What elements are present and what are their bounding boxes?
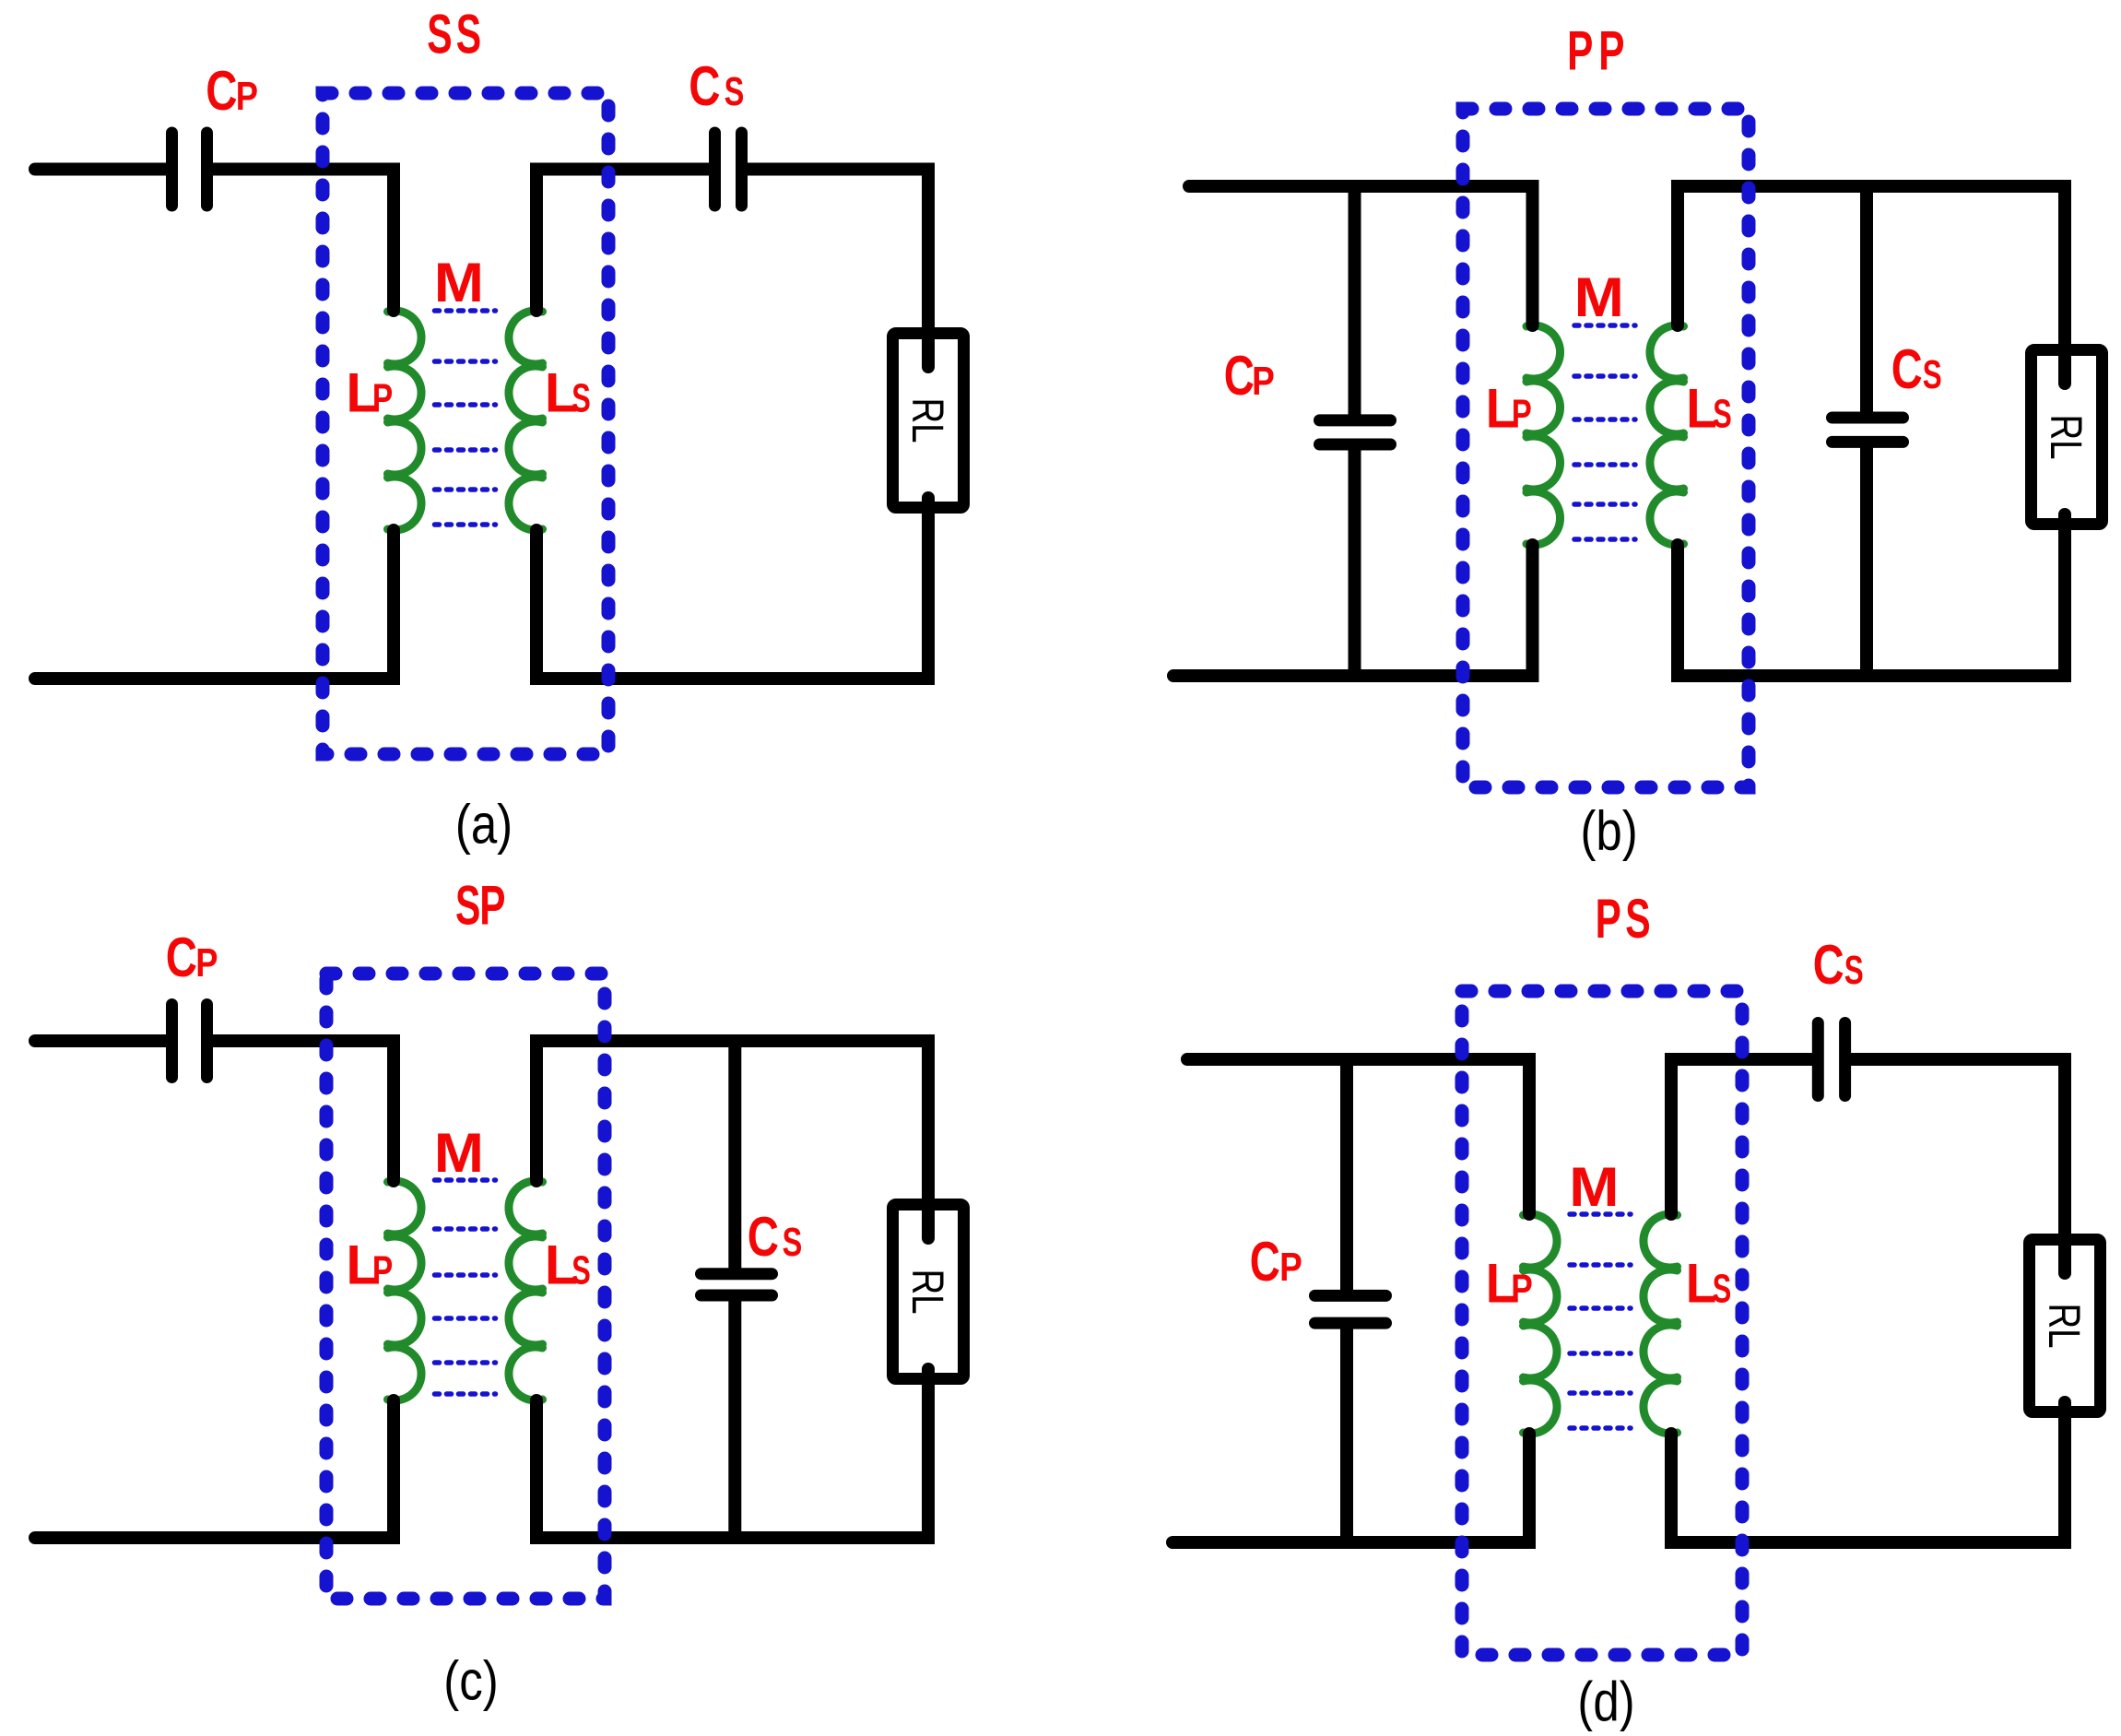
svg-text:S: S — [427, 3, 452, 65]
svg-text:P: P — [1511, 1267, 1533, 1312]
mutual inductance M (a) coupling dashes — [435, 308, 496, 313]
inductor LS (c) secondary coil — [509, 1181, 543, 1400]
transformer boundary box (a) blue dashed — [323, 93, 608, 754]
inductor LS (b) secondary coil — [1650, 325, 1684, 545]
svg-text:RL: RL — [2039, 1303, 2088, 1348]
svg-text:C: C — [1891, 339, 1923, 401]
capacitor CS (b) parallel plates — [1832, 412, 1903, 424]
wire (c) LS top rail to RL — [536, 1041, 928, 1238]
svg-text:M: M — [1574, 266, 1624, 328]
wire (c) CP to LP top — [212, 1041, 394, 1181]
wire (d) LS bottom rail to RL bottom — [1671, 1402, 2065, 1542]
svg-text:S: S — [1923, 352, 1942, 397]
svg-text:RL: RL — [2041, 414, 2090, 459]
wire (b) LP bottom to bottom-left rail — [1173, 545, 1533, 676]
resistor RL (a) — [893, 334, 964, 508]
wire (a) CP to LP top — [212, 170, 394, 312]
wire (b) CS branch lower — [1860, 447, 1873, 676]
capacitor CP (c) series plates — [166, 1005, 178, 1078]
svg-text:S: S — [1713, 392, 1732, 437]
wire (c) CS branch lower — [728, 1301, 741, 1539]
wire (d) LS top to capacitor CS — [1671, 1059, 1812, 1214]
capacitor CS (a) series plates — [709, 133, 721, 206]
svg-text:M: M — [434, 1122, 484, 1184]
svg-text:P: P — [1598, 21, 1624, 83]
svg-text:P: P — [236, 73, 258, 119]
svg-text:S: S — [455, 874, 480, 937]
mutual inductance M (b) coupling dashes — [1574, 323, 1635, 328]
capacitor CS (d) series plates — [1812, 1023, 1824, 1096]
wire (c) input top-left to capacitor CP — [35, 1034, 167, 1047]
svg-text:P: P — [1567, 21, 1593, 83]
svg-text:S: S — [783, 1220, 803, 1265]
wire (d) CS to resistor RL — [1851, 1059, 2065, 1273]
svg-text:(c): (c) — [443, 1650, 498, 1712]
svg-text:P: P — [479, 875, 505, 937]
svg-text:(a): (a) — [455, 794, 513, 856]
capacitor CP (d) parallel plates — [1315, 1290, 1386, 1302]
svg-text:C: C — [689, 56, 720, 118]
capacitor CP (a) series plates — [166, 133, 178, 206]
wire (c) CS branch upper — [728, 1041, 741, 1269]
svg-text:RL: RL — [902, 1269, 951, 1314]
wire (b) LS top rail to RL — [1678, 186, 2065, 384]
capacitor CP (b) parallel plates — [1320, 414, 1391, 426]
svg-text:S: S — [1844, 948, 1864, 993]
transformer boundary box (c) blue dashed — [326, 974, 605, 1599]
svg-text:M: M — [1569, 1156, 1619, 1218]
inductor LP (a) primary coil — [388, 311, 422, 530]
mutual inductance M (d) coupling dashes — [1570, 1211, 1631, 1217]
svg-text:S: S — [725, 69, 745, 114]
inductor LP (c) primary coil — [388, 1181, 422, 1400]
svg-text:P: P — [1596, 889, 1621, 951]
svg-text:P: P — [372, 1248, 393, 1293]
capacitor CS (c) parallel plates — [701, 1268, 772, 1280]
svg-text:C: C — [166, 927, 197, 989]
inductor LS (a) secondary coil — [509, 311, 543, 530]
wire (a) CS to resistor RL — [747, 170, 928, 368]
svg-text:C: C — [1224, 346, 1255, 407]
inductor LP (d) primary coil — [1524, 1214, 1558, 1434]
svg-text:S: S — [571, 1248, 591, 1293]
wire (b) CP branch upper — [1349, 186, 1361, 416]
svg-text:(d): (d) — [1577, 1671, 1634, 1731]
wire (c) LS bottom rail to RL bottom — [536, 1369, 928, 1538]
svg-text:S: S — [571, 376, 591, 421]
wire (b) CP branch lower — [1349, 450, 1361, 677]
mutual inductance M (c) coupling dashes — [435, 1177, 496, 1183]
svg-text:M: M — [434, 252, 484, 313]
wire (d) LP bottom to bottom-left rail — [1172, 1434, 1529, 1542]
svg-text:S: S — [1625, 887, 1650, 950]
wire (a) LS bottom rail to RL bottom — [536, 498, 928, 679]
svg-text:P: P — [195, 939, 218, 986]
svg-text:S: S — [456, 3, 481, 65]
wire (d) CP branch upper — [1340, 1059, 1353, 1292]
inductor LS (d) secondary coil — [1644, 1214, 1678, 1434]
inductor LP (b) primary coil — [1526, 325, 1561, 545]
svg-text:(b): (b) — [1580, 800, 1637, 862]
wire (a) input top-left to capacitor CP — [35, 163, 167, 176]
resistor RL (b) — [2032, 350, 2103, 525]
svg-text:C: C — [1250, 1232, 1280, 1293]
svg-text:P: P — [1512, 392, 1532, 437]
svg-text:C: C — [206, 61, 237, 123]
svg-text:C: C — [748, 1207, 779, 1269]
wire (b) CS branch upper — [1860, 186, 1873, 413]
wire (d) CP branch lower — [1340, 1329, 1353, 1543]
resistor RL (c) — [893, 1205, 964, 1379]
resistor RL (d) — [2030, 1240, 2101, 1412]
wire (a) LS top to capacitor CS — [536, 170, 710, 312]
svg-text:P: P — [1279, 1244, 1302, 1290]
wire (d) top-left rail to LP top — [1187, 1059, 1529, 1214]
svg-text:P: P — [372, 376, 393, 420]
svg-text:S: S — [1713, 1267, 1732, 1312]
transformer boundary box (d) blue dashed — [1462, 991, 1742, 1655]
svg-text:P: P — [1252, 358, 1275, 404]
wire (a) LP bottom to bottom-left rail — [35, 530, 394, 679]
svg-text:RL: RL — [902, 397, 951, 443]
wire (b) LS bottom rail to RL bottom — [1678, 514, 2065, 676]
wire (c) LP bottom to bottom-left rail — [35, 1400, 394, 1538]
wire (b) top-left rail to LP top — [1189, 186, 1533, 325]
svg-text:C: C — [1813, 935, 1844, 997]
transformer boundary box (b) blue dashed — [1463, 109, 1749, 787]
